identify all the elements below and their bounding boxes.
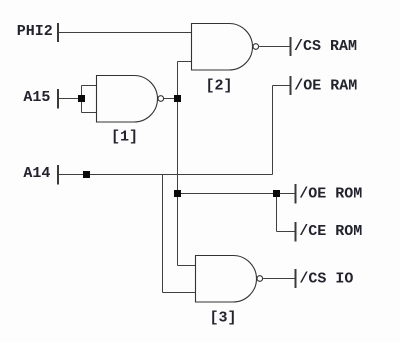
wire /CE ROM vertical (276, 194, 278, 232)
wire /CE ROM horizontal (277, 231, 296, 233)
svg-text:/OE ROM: /OE ROM (299, 186, 362, 203)
wire U1 output to vertical bus (164, 98, 178, 100)
svg-text:[1]: [1] (111, 129, 138, 146)
wire A14 vertical to U3 input B (162, 175, 164, 293)
terminal tick /CE ROM (295, 222, 297, 242)
wire PHI2 to U2 input A (58, 32, 192, 34)
svg-text:/CS IO: /CS IO (299, 271, 353, 288)
wire /OE RAM vertical to A14 net (272, 86, 274, 175)
junction /OE ROM branch on bus (174, 190, 181, 197)
wire U3 input A stub (178, 265, 197, 267)
wire U3 output to /CS IO (263, 278, 295, 280)
wire vertical bus (U1 output net) (177, 62, 179, 266)
terminal tick PHI2 (57, 23, 59, 42)
terminal tick /CS IO (295, 269, 297, 288)
svg-text:[2]: [2] (205, 78, 232, 95)
junction A15 fork (78, 95, 85, 102)
svg-text:A14: A14 (23, 165, 50, 182)
junction U1 output node (174, 95, 181, 102)
nand-gate U1 bubble (158, 96, 164, 102)
nand-gate U3 body (196, 256, 257, 303)
nand-gate U3 bubble (257, 276, 263, 282)
svg-text:[3]: [3] (209, 310, 236, 327)
svg-text:/OE RAM: /OE RAM (294, 78, 357, 95)
wire A15 to junction (58, 98, 82, 100)
svg-text:PHI2: PHI2 (17, 23, 53, 40)
junction /CE ROM branch (273, 190, 280, 197)
wire U2 input B stub (178, 61, 192, 63)
terminal tick A15 (57, 89, 59, 109)
svg-text:/CS RAM: /CS RAM (294, 38, 357, 55)
terminal tick /CS RAM (290, 37, 292, 56)
svg-text:A15: A15 (23, 89, 50, 106)
wire A15 fork vertical (81, 86, 83, 113)
terminal tick A14 (57, 165, 59, 185)
wire A14 horizontal (58, 174, 273, 176)
wire /OE RAM horizontal (273, 85, 291, 87)
terminal tick /OE ROM (295, 184, 297, 204)
nand-gate U2 bubble (253, 44, 259, 50)
nand-gate U1 body (97, 76, 158, 123)
junction A14 tap (83, 171, 90, 178)
wire U1 input B stub (82, 112, 97, 114)
wire U1 input A stub (82, 85, 97, 87)
wire U3 input B stub (163, 292, 197, 294)
wire U2 output to /CS RAM (259, 46, 290, 48)
terminal tick /OE RAM (290, 76, 292, 95)
wire /OE ROM horizontal (178, 193, 296, 195)
nand-gate U2 body (192, 24, 253, 71)
svg-text:/CE ROM: /CE ROM (299, 223, 362, 240)
